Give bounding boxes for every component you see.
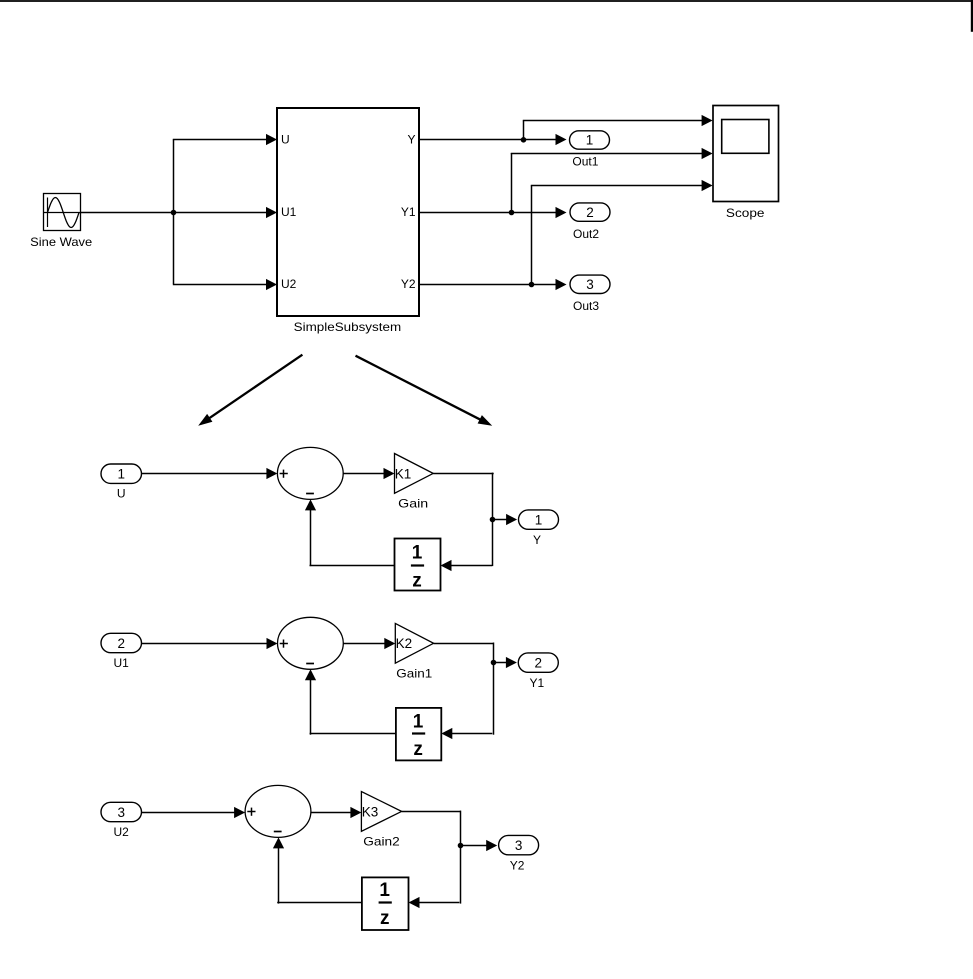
svg-text:U2: U2 — [114, 825, 130, 839]
wire Y2 branch to Scope input 3 — [531, 180, 713, 285]
svg-text:Sine Wave: Sine Wave — [30, 235, 92, 249]
gain block Gain2 (K3) — [361, 792, 401, 849]
wire junction to outport Y2 — [460, 840, 497, 851]
junction on Y wire — [521, 137, 527, 143]
svg-text:U1: U1 — [114, 656, 130, 670]
sum block (loop 3) — [245, 785, 311, 837]
wire branch up to port U — [173, 134, 277, 213]
svg-text:1: 1 — [586, 133, 594, 148]
svg-text:2: 2 — [535, 656, 543, 671]
inport U (1) — [101, 464, 142, 501]
svg-text:Y1: Y1 — [401, 205, 416, 219]
outport Out3 — [570, 275, 610, 313]
svg-text:Y1: Y1 — [529, 676, 544, 690]
annotation arrow left (subsystem expansion) — [198, 355, 302, 426]
annotation arrow right (subsystem expansion) — [356, 356, 493, 426]
svg-text:z: z — [412, 571, 422, 592]
wire Y1 to Out2 — [419, 207, 567, 218]
sum block (loop 1) — [277, 447, 343, 499]
wire branch down to port U2 — [173, 212, 277, 290]
wire unit delay output up into sum (loop 3) — [273, 837, 362, 903]
svg-text:Out1: Out1 — [572, 154, 598, 168]
source block Sine Wave — [30, 194, 92, 249]
svg-text:z: z — [413, 739, 423, 760]
svg-text:U1: U1 — [281, 205, 297, 219]
outport Y (1) — [519, 510, 559, 547]
wire Y branch to Scope input 1 — [523, 115, 713, 140]
svg-text:K2: K2 — [396, 636, 413, 651]
junction on Y2 wire — [529, 282, 535, 288]
gain block Gain (K1) — [395, 454, 434, 511]
gain block Gain1 (K2) — [395, 623, 433, 680]
outport Out2 — [570, 203, 610, 241]
junction on Y1 wire — [509, 210, 515, 216]
svg-text:1: 1 — [379, 880, 390, 901]
unit delay block 1/z (loop 2) — [396, 708, 441, 761]
svg-text:3: 3 — [515, 838, 523, 853]
junction on gain output (loop 3) — [458, 843, 464, 849]
svg-text:U: U — [281, 133, 290, 147]
sum block (loop 2) — [278, 617, 344, 669]
svg-text:Gain: Gain — [398, 497, 428, 511]
svg-text:Scope: Scope — [726, 206, 765, 220]
outport Y2 (3) — [499, 835, 539, 872]
wire unit delay output up into sum (loop 1) — [305, 499, 395, 566]
wire gain output down to feedback (loop 1) — [433, 473, 494, 566]
wire branch to port U1 — [173, 207, 277, 218]
wire feedback into unit delay (loop 2) — [441, 728, 492, 739]
block SimpleSubsystem — [277, 108, 419, 334]
svg-text:K3: K3 — [362, 804, 379, 819]
junction on gain output (loop 2) — [491, 660, 497, 666]
wire inport U2 to sum — [142, 807, 246, 818]
svg-text:U2: U2 — [281, 277, 297, 291]
outport Out1 — [570, 131, 610, 169]
svg-text:Out3: Out3 — [573, 299, 599, 313]
wire Y to Out1 — [419, 134, 567, 145]
junction on gain output (loop 1) — [490, 517, 496, 523]
svg-text:3: 3 — [117, 805, 125, 820]
inport U1 (2) — [101, 633, 142, 670]
svg-text:Gain1: Gain1 — [396, 667, 432, 681]
wire inport U to sum — [142, 468, 278, 479]
unit delay block 1/z (loop 3) — [362, 877, 409, 930]
svg-text:Y: Y — [533, 533, 541, 547]
wire junction to outport Y — [493, 514, 517, 525]
svg-text:K1: K1 — [395, 466, 412, 481]
svg-text:1: 1 — [535, 513, 543, 528]
svg-text:2: 2 — [117, 636, 125, 651]
svg-text:z: z — [380, 908, 390, 929]
page top border line — [0, 0, 973, 2]
svg-text:2: 2 — [586, 205, 594, 220]
inport U2 (3) — [101, 802, 142, 839]
svg-text:Y2: Y2 — [401, 277, 416, 291]
svg-text:Y: Y — [407, 133, 415, 147]
wire junction to outport Y1 — [493, 657, 517, 668]
wire inport U1 to sum — [142, 638, 278, 649]
wire feedback into unit delay (loop 3) — [409, 897, 460, 908]
svg-text:U: U — [117, 487, 126, 501]
page right partial border line — [971, 0, 973, 32]
svg-text:Out2: Out2 — [573, 227, 599, 241]
wire gain output down to feedback (loop 3) — [402, 811, 461, 904]
svg-text:Y2: Y2 — [510, 859, 525, 873]
wire unit delay output up into sum (loop 2) — [305, 669, 396, 734]
unit delay block 1/z (loop 1) — [395, 539, 441, 592]
junction at sine wave branch — [171, 210, 177, 216]
svg-text:1: 1 — [412, 543, 423, 564]
svg-text:1: 1 — [117, 467, 125, 482]
outport Y1 (2) — [518, 653, 558, 690]
svg-text:SimpleSubsystem: SimpleSubsystem — [294, 320, 402, 334]
scope block Scope — [713, 106, 779, 220]
wire gain output down to feedback (loop 2) — [434, 643, 494, 735]
wire Y1 branch to Scope input 2 — [511, 148, 713, 213]
wire feedback into unit delay (loop 1) — [441, 560, 493, 571]
wire sum to gain (loop 2) — [343, 638, 395, 649]
wire Sine Wave output to branch junction — [81, 212, 173, 214]
wire Y2 to Out3 — [419, 279, 567, 290]
svg-text:Gain2: Gain2 — [363, 835, 400, 849]
svg-text:1: 1 — [413, 711, 424, 732]
wire sum to gain (loop 1) — [343, 468, 394, 479]
svg-text:3: 3 — [586, 277, 594, 292]
wire sum to gain (loop 3) — [311, 807, 362, 818]
